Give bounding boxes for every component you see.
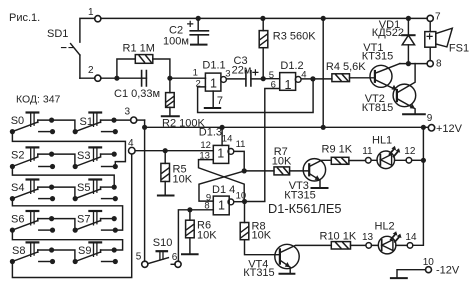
node 12 xyxy=(406,158,412,164)
svg-text:R4 5,6K: R4 5,6K xyxy=(326,61,366,73)
svg-text:SD1: SD1 xyxy=(47,28,68,40)
wire node6 riser to pin8 xyxy=(178,210,213,262)
speaker FS1 xyxy=(429,21,431,60)
wire bus5 S8-left bottom bus to node4 xyxy=(12,154,131,277)
op-amp U-gate D1.1 xyxy=(205,73,221,91)
junction dot Q xyxy=(242,168,247,173)
pushbutton S3 xyxy=(73,147,118,169)
svg-text:S7: S7 xyxy=(77,213,90,225)
svg-text:КТ315: КТ315 xyxy=(362,51,393,63)
svg-text:D1 4: D1 4 xyxy=(212,184,235,196)
gate D1.4 xyxy=(213,196,229,215)
wire bus4 S6-left to S9-top xyxy=(12,230,122,250)
svg-text:S2: S2 xyxy=(11,150,24,162)
pushbutton S6 xyxy=(10,211,75,233)
wire node2 row xyxy=(80,77,141,79)
ground bar R2 xyxy=(162,115,179,117)
resistor R5 xyxy=(164,151,166,196)
junction dot R6 tap xyxy=(187,207,192,212)
svg-text:12: 12 xyxy=(404,146,416,157)
wire pin14 xyxy=(221,127,223,145)
wire pin13 cross xyxy=(199,160,245,202)
wire bus2 S2-left to S5-top xyxy=(12,167,114,188)
svg-text:КТ315: КТ315 xyxy=(243,267,274,279)
svg-text:+12V: +12V xyxy=(436,123,463,135)
wire node1 to SD1 xyxy=(80,18,95,42)
resistor R1 xyxy=(117,59,170,78)
svg-text:1: 1 xyxy=(285,78,292,92)
svg-text:10K: 10K xyxy=(173,174,193,186)
node 3 xyxy=(131,117,137,123)
junction dot output4 xyxy=(310,76,315,81)
wire top rail xyxy=(101,17,427,19)
svg-text:6: 6 xyxy=(172,252,178,263)
capacitor C1 xyxy=(142,71,147,86)
svg-text:6: 6 xyxy=(271,80,276,91)
svg-text:КТ815: КТ815 xyxy=(362,102,393,114)
resistor R6 xyxy=(189,210,191,254)
wire output4 to R4 xyxy=(301,78,332,80)
node 5 xyxy=(142,261,148,267)
svg-text:Рис.1.: Рис.1. xyxy=(9,12,40,24)
pushbutton S1 xyxy=(73,113,131,135)
junction dot R5 tap xyxy=(163,148,168,153)
svg-text:11: 11 xyxy=(236,139,246,150)
node 4 xyxy=(129,147,136,154)
svg-text:10K: 10K xyxy=(252,230,272,242)
wire bus1 S0-left to S3-stub xyxy=(12,132,125,167)
ground pin7 D1.1 xyxy=(212,91,214,108)
svg-text:9: 9 xyxy=(427,113,433,124)
svg-text:13: 13 xyxy=(362,232,374,243)
svg-text:8: 8 xyxy=(436,58,442,69)
node 13 xyxy=(366,243,372,249)
wire node8 row xyxy=(400,63,427,65)
svg-text:7: 7 xyxy=(217,95,223,107)
transistor VT2 xyxy=(393,84,416,107)
wire node3 to riser xyxy=(137,119,145,121)
svg-text:2: 2 xyxy=(88,65,94,76)
svg-text:D1.1: D1.1 xyxy=(202,59,225,71)
resistor R9 xyxy=(331,157,349,164)
transistor VT1 xyxy=(370,65,392,87)
gate D1.3 xyxy=(213,145,228,163)
pushbutton S8 xyxy=(10,242,75,264)
svg-text:3: 3 xyxy=(225,69,230,80)
node 1 xyxy=(95,16,101,22)
junction dot Qbar xyxy=(242,199,247,204)
resistor R7 xyxy=(244,170,309,172)
pushbutton S9 xyxy=(73,242,118,264)
wire node10 to ground xyxy=(397,270,426,278)
gate D1.2 xyxy=(280,73,296,91)
svg-text:7: 7 xyxy=(435,11,441,22)
svg-text:10K: 10K xyxy=(197,230,217,242)
diode VD1 xyxy=(406,16,411,21)
svg-text:1: 1 xyxy=(88,7,94,18)
svg-text:S4: S4 xyxy=(11,182,24,194)
svg-text:8: 8 xyxy=(204,201,209,212)
svg-text:R3 560K: R3 560K xyxy=(273,31,316,43)
svg-text:S10: S10 xyxy=(153,237,173,249)
node 14 xyxy=(407,243,413,249)
ground bar -12V xyxy=(391,277,407,279)
resistor R4 xyxy=(332,74,350,82)
svg-text:22м: 22м xyxy=(232,64,252,76)
svg-text:14: 14 xyxy=(405,232,417,243)
svg-text:D1.2: D1.2 xyxy=(280,60,303,72)
svg-text:-12V: -12V xyxy=(436,264,460,276)
svg-text:2: 2 xyxy=(196,78,201,89)
svg-text:HL1: HL1 xyxy=(372,134,392,146)
wire node12 to +12 riser xyxy=(412,159,424,161)
svg-text:100м: 100м xyxy=(163,36,189,48)
pushbutton S5 xyxy=(73,180,118,202)
svg-text:R1 1M: R1 1M xyxy=(123,43,155,55)
svg-text:11: 11 xyxy=(362,146,373,157)
resistor R10 xyxy=(331,242,350,249)
LED HL2 xyxy=(372,244,408,246)
resistor R2 xyxy=(169,78,171,115)
svg-text:S0: S0 xyxy=(11,115,24,127)
svg-text:R10 1K: R10 1K xyxy=(320,231,357,243)
svg-text:1: 1 xyxy=(217,146,224,160)
svg-text:R9 1K: R9 1K xyxy=(322,143,353,155)
svg-text:4: 4 xyxy=(301,69,306,80)
wire bus3 S4-left to S7-stub xyxy=(12,199,122,231)
capacitor C2 xyxy=(196,16,201,21)
rail +12V xyxy=(145,126,429,128)
pushbutton S7 xyxy=(73,211,118,233)
wire output10 xyxy=(234,201,245,203)
ground VT2 xyxy=(403,113,425,115)
pushbutton S4 xyxy=(10,180,75,202)
wire pin5 xyxy=(263,78,280,80)
svg-text:КОД: 347: КОД: 347 xyxy=(16,93,61,105)
svg-text:КТ315: КТ315 xyxy=(284,189,315,201)
svg-text:C1 0,33м: C1 0,33м xyxy=(114,88,160,100)
svg-text:4: 4 xyxy=(128,138,134,149)
wire pin6 feedback from pin10 xyxy=(245,89,280,202)
LED HL1 xyxy=(371,159,406,161)
svg-text:1: 1 xyxy=(218,198,225,212)
node 10 terminal xyxy=(426,267,432,273)
svg-text:10: 10 xyxy=(236,190,247,201)
svg-text:12: 12 xyxy=(200,140,211,151)
wire node4 to pin12 xyxy=(135,150,213,152)
svg-text:S3: S3 xyxy=(77,150,90,162)
node 11 xyxy=(366,158,372,164)
junction dot xyxy=(167,76,172,81)
wire rail tie xyxy=(321,16,326,21)
svg-text:HL2: HL2 xyxy=(375,220,395,232)
svg-text:13: 13 xyxy=(199,151,210,162)
svg-text:КД522: КД522 xyxy=(372,27,404,39)
capacitor C3 xyxy=(226,78,263,80)
wire pin9 cross xyxy=(199,171,244,201)
pushbutton S10 xyxy=(148,258,169,264)
node 7 xyxy=(427,15,433,21)
pushbutton S2 xyxy=(10,147,75,169)
switch SD1 xyxy=(71,44,80,55)
svg-text:S9: S9 xyxy=(78,245,91,257)
svg-text:S5: S5 xyxy=(77,182,90,194)
junction dot xyxy=(114,76,119,81)
svg-text:D1.3: D1.3 xyxy=(199,126,222,138)
wire pin2 feedback xyxy=(198,79,314,113)
transistor VT3 xyxy=(303,159,325,181)
wire +12 riser xyxy=(413,127,424,245)
resistor R8 xyxy=(245,202,280,255)
svg-text:FS1: FS1 xyxy=(449,43,469,55)
svg-text:5: 5 xyxy=(136,252,142,263)
pushbutton S0 xyxy=(10,113,75,135)
svg-text:S8: S8 xyxy=(12,245,25,257)
wire to D1.1 pin1 xyxy=(142,77,206,79)
svg-text:10: 10 xyxy=(423,257,435,268)
node 6 xyxy=(175,261,181,267)
transistor VT4 xyxy=(275,244,299,268)
node 2 xyxy=(95,75,101,81)
svg-text:D1-К561ЛЕ5: D1-К561ЛЕ5 xyxy=(268,201,341,216)
svg-text:3: 3 xyxy=(125,107,131,118)
svg-text:S6: S6 xyxy=(11,214,24,226)
svg-text:10K: 10K xyxy=(272,156,292,168)
wire riser node3/rail/node5 xyxy=(144,120,146,261)
junction dot C3/R3/pin5 xyxy=(261,76,266,81)
node 8 xyxy=(427,61,433,67)
svg-text:14: 14 xyxy=(222,134,233,145)
svg-text:1: 1 xyxy=(193,68,198,79)
svg-text:1: 1 xyxy=(210,76,217,90)
svg-text:S1: S1 xyxy=(80,116,93,128)
resistor R3 xyxy=(260,16,265,21)
node 9 xyxy=(428,125,434,131)
wire output11 xyxy=(234,151,244,171)
